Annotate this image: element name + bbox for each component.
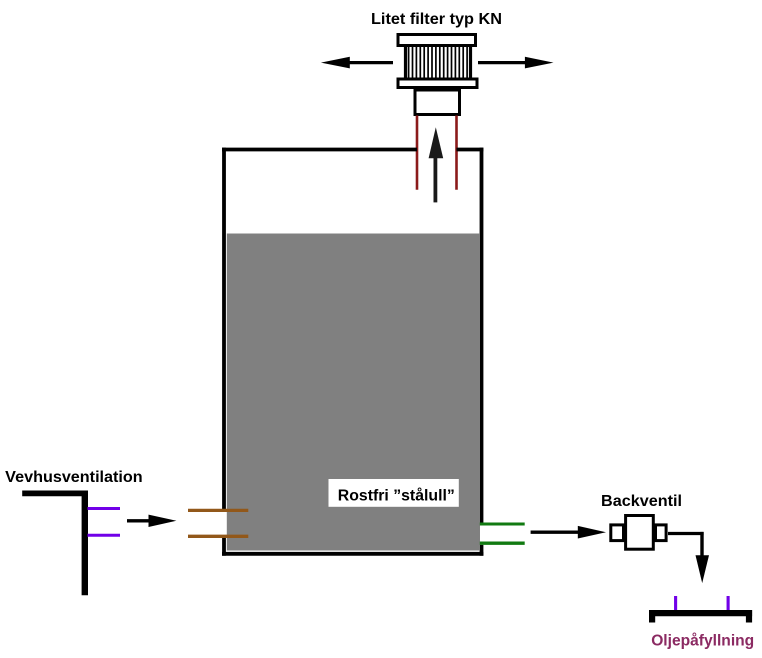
steel wool fill gray (227, 234, 480, 551)
svg-text:Litet filter typ KN: Litet filter typ KN (371, 11, 502, 28)
label box Rostfri stalull (329, 479, 459, 507)
intake pipe left dark red (416, 116, 419, 190)
oil filler port bar (649, 610, 752, 616)
oil filler left cap (649, 610, 655, 623)
tank right wall upper segment (480, 148, 484, 523)
tank top edge left segment (222, 148, 417, 152)
tank bottom edge (222, 552, 483, 556)
intake flow arrow up (429, 127, 444, 202)
outlet line vertical (700, 532, 703, 557)
check valve left port (611, 525, 624, 541)
tank left wall upper segment (222, 148, 226, 512)
vent nipple lower purple (88, 534, 121, 537)
svg-text:Rostfri ”stålull”: Rostfri ”stålull” (338, 487, 455, 505)
down arrow to oil filler (696, 555, 710, 583)
left outlet arrow (321, 57, 393, 69)
svg-text:Backventil: Backventil (601, 493, 682, 510)
filler nipple right purple (727, 596, 730, 610)
tank inlet stub lower brown (188, 535, 248, 538)
right outlet arrow (478, 57, 554, 69)
vent nipple upper purple (88, 507, 121, 510)
flow arrow into tank (127, 515, 176, 527)
tank right wall lower segment (480, 545, 484, 556)
flow arrow to check valve (531, 526, 606, 539)
oil filler right cap (746, 610, 752, 623)
intake pipe right dark red (455, 116, 458, 190)
check valve right port (656, 525, 667, 541)
svg-text:Oljepåfyllning: Oljepåfyllning (651, 632, 754, 650)
filter F1 top cap (398, 35, 476, 46)
crankcase vent pipe vertical (82, 491, 88, 596)
filter F1 bottom cap (398, 79, 477, 88)
tank outlet stub upper green (480, 522, 525, 525)
filler nipple left purple (674, 596, 677, 610)
tank top edge right segment (457, 148, 484, 152)
tank inlet stub upper brown (188, 509, 248, 512)
tank left wall lower segment (222, 538, 226, 556)
svg-text:Vevhusventilation: Vevhusventilation (5, 469, 143, 486)
filter F1 element hatched body (406, 46, 471, 80)
tank outlet stub lower green (480, 542, 525, 545)
check valve body (626, 516, 654, 550)
outlet line horizontal (668, 532, 704, 535)
crankcase vent pipe horizontal (22, 490, 88, 496)
filter F1 neck (415, 90, 460, 115)
